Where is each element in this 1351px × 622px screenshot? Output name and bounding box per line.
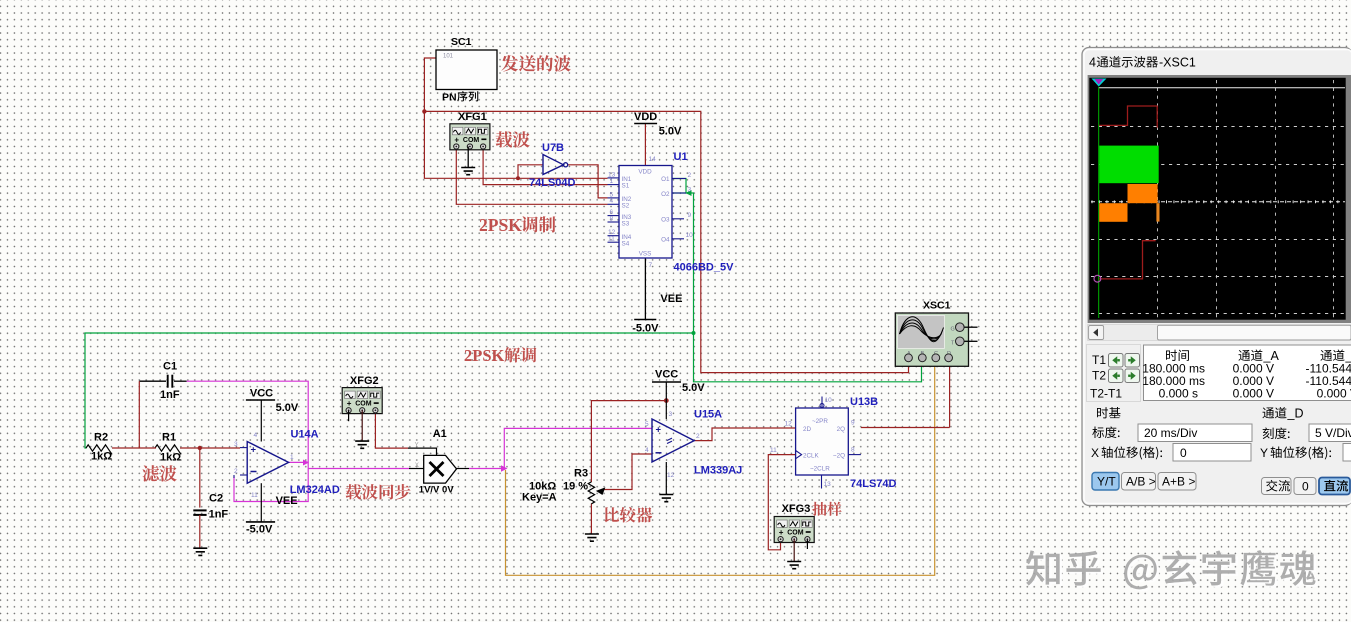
wire: R2 to R1 [112, 447, 156, 449]
svg-text:0.000 V: 0.000 V [1317, 387, 1351, 401]
VDD power symbol [634, 111, 682, 138]
wire: U1 pin7 to VEE [644, 258, 646, 320]
svg-text:A+B >: A+B > [1162, 475, 1195, 489]
multiplier A1 [415, 428, 457, 496]
svg-text:9: 9 [688, 212, 692, 219]
svg-text:S1: S1 [622, 183, 630, 190]
svg-text:74LS04D: 74LS04D [529, 177, 576, 189]
resistor R2 [86, 432, 112, 463]
svg-text:U14A: U14A [291, 429, 319, 441]
analog switch U1 4066BD_5V [608, 151, 735, 274]
svg-text:Y/T: Y/T [1097, 475, 1116, 489]
svg-text:3: 3 [234, 441, 238, 448]
svg-text:1nF: 1nF [209, 509, 229, 521]
svg-text:T2-T1: T2-T1 [1090, 387, 1122, 401]
T1 T2 cursor controls [1087, 345, 1141, 402]
wire: multiplier X input stub [409, 468, 424, 470]
svg-text:SC1: SC1 [451, 36, 472, 48]
svg-text:VEE: VEE [276, 495, 298, 507]
scope x-axis with ticks [1091, 200, 1345, 203]
svg-text:C2: C2 [209, 493, 223, 505]
svg-text:12: 12 [785, 421, 793, 428]
svg-text:0: 0 [1302, 480, 1309, 494]
inverter U7B 74LS04D [529, 142, 576, 189]
svg-text:O3: O3 [661, 217, 670, 224]
svg-text:74LS74D: 74LS74D [850, 478, 897, 490]
annotation: 2PSK demodulation [464, 346, 536, 365]
svg-text:U13B: U13B [850, 396, 878, 408]
measurement table [1142, 345, 1351, 401]
svg-text:T1: T1 [1092, 353, 1106, 367]
svg-text:1: 1 [610, 178, 614, 185]
svg-text:10: 10 [825, 397, 833, 404]
wire: magenta multiplier output to comparator + [469, 428, 652, 471]
svg-text:1V/V 0V: 1V/V 0V [419, 485, 455, 496]
channel A trace (red) [1099, 106, 1157, 128]
wire: minus input feedback stub [233, 475, 235, 478]
wire: branch to oscilloscope channel A [424, 111, 908, 372]
wire: R1 to op-amp + input [180, 446, 240, 450]
svg-text:~2Q: ~2Q [833, 453, 845, 460]
svg-text:COM: COM [787, 530, 804, 537]
svg-text:1nF: 1nF [160, 389, 180, 401]
wire: XFG1 plus to U1 pin4 [456, 147, 607, 205]
svg-text:C1: C1 [163, 361, 177, 373]
svg-text:4: 4 [645, 447, 649, 454]
annotation: transmitted wave [501, 55, 570, 71]
svg-text:1: 1 [290, 454, 294, 461]
svg-text:COM: COM [355, 401, 372, 408]
svg-text:+: + [251, 444, 257, 455]
svg-text:+: + [779, 528, 784, 537]
annotation: carrier [496, 131, 530, 147]
svg-text:XFG1: XFG1 [458, 111, 487, 123]
svg-text:~2PR: ~2PR [812, 418, 828, 425]
svg-text:XFG3: XFG3 [782, 503, 811, 515]
svg-text:4066BD_5V: 4066BD_5V [674, 262, 735, 274]
svg-text:8: 8 [610, 215, 614, 222]
resistor R1 [155, 432, 181, 464]
svg-text:XSC1: XSC1 [923, 300, 951, 312]
VCC symbol U14A [246, 388, 299, 442]
svg-text:0.000 V: 0.000 V [1233, 387, 1274, 401]
svg-text:VSS: VSS [639, 251, 652, 258]
svg-text:Y: Y [1260, 446, 1268, 460]
svg-text:11: 11 [608, 236, 615, 243]
svg-text:11: 11 [251, 492, 258, 499]
svg-text:R1: R1 [162, 432, 176, 444]
svg-text:2: 2 [696, 433, 700, 440]
svg-text:1kΩ: 1kΩ [160, 452, 181, 464]
y position label [1260, 444, 1351, 462]
ground XFG2 COM [355, 410, 369, 448]
svg-text:VEE: VEE [660, 293, 682, 305]
svg-text:LM339AJ: LM339AJ [694, 465, 742, 477]
annotation: sampling [812, 502, 841, 516]
svg-text:Key=A: Key=A [522, 492, 557, 504]
trigger marker [1092, 79, 1107, 87]
XFG2 plus stub [348, 410, 350, 421]
svg-text:O2: O2 [661, 191, 670, 198]
svg-text:S3: S3 [622, 221, 630, 228]
window title [1089, 56, 1196, 70]
svg-text:VDD: VDD [634, 111, 657, 123]
svg-text:U7B: U7B [542, 142, 564, 154]
svg-text:5.0V: 5.0V [276, 402, 299, 414]
svg-text:3: 3 [688, 187, 692, 194]
svg-text:8: 8 [851, 447, 855, 454]
wire: comparator output to U13B 2D [694, 428, 796, 441]
capacitor C1 [139, 361, 186, 402]
svg-text:7: 7 [649, 262, 653, 269]
svg-text:VCC: VCC [655, 369, 678, 381]
svg-text:1kΩ: 1kΩ [91, 451, 112, 463]
ground XFG1 COM [461, 147, 475, 175]
channel C trace (orange blocks) [1099, 184, 1159, 222]
wire: U7B output to U1 pin5 [567, 165, 608, 198]
svg-text:4: 4 [610, 198, 614, 205]
wire: R3 wiper to comparator minus [604, 454, 652, 490]
svg-text:A1: A1 [433, 428, 447, 440]
svg-text:+: + [454, 135, 459, 144]
svg-text:G: G [951, 327, 955, 333]
svg-text:9: 9 [851, 420, 855, 427]
ground XFG3 COM [787, 539, 801, 569]
op-amp U14A LM324AD [234, 429, 340, 500]
annotation: carrier sync [346, 484, 411, 500]
timebase section [1097, 407, 1121, 418]
svg-text:12: 12 [667, 472, 675, 479]
svg-text:T2: T2 [1092, 369, 1106, 383]
svg-text:2: 2 [688, 172, 692, 179]
svg-text:2PSK: 2PSK [464, 346, 505, 365]
svg-text:0: 0 [1180, 446, 1187, 460]
svg-text:VDD: VDD [638, 169, 652, 176]
function generator XFG1 [450, 111, 490, 150]
svg-text:2Q: 2Q [837, 426, 846, 433]
capacitor C2 [193, 448, 228, 548]
potentiometer R3 [522, 468, 605, 504]
wire: XFG3 plus to U13B 2CLK [768, 455, 795, 550]
svg-text:S4: S4 [622, 241, 630, 248]
svg-text:5.0V: 5.0V [682, 382, 705, 394]
svg-text:19 %: 19 % [563, 481, 588, 493]
svg-text:XFG2: XFG2 [350, 375, 379, 387]
svg-text:2PSK: 2PSK [479, 215, 522, 235]
function generator XFG2 [342, 375, 382, 414]
wire: multiplier output stub [457, 468, 470, 470]
svg-text:20 ms/Div: 20 ms/Div [1144, 426, 1197, 440]
svg-text:R3: R3 [574, 468, 588, 480]
svg-text:COM: COM [463, 137, 480, 144]
svg-text:13: 13 [824, 481, 832, 488]
svg-text:O4: O4 [661, 237, 670, 244]
wire: XFG1 minus to U1 pin1 [483, 147, 607, 185]
annotation: comparator [605, 507, 653, 523]
svg-text:+: + [347, 399, 352, 408]
XFG3 minus stub [806, 539, 808, 549]
svg-text:5 V/Div: 5 V/Div [1315, 426, 1351, 440]
svg-text:R2: R2 [94, 432, 108, 444]
svg-text:_D: _D [1287, 407, 1304, 421]
svg-text:-XSC1: -XSC1 [1159, 56, 1196, 70]
svg-text:10: 10 [686, 232, 694, 239]
svg-text:O1: O1 [661, 176, 670, 183]
wire: VDD to U1 pin14 [644, 124, 646, 166]
ground U15A pin12 [659, 462, 673, 502]
channel D section [1262, 407, 1303, 421]
comparator U15A LM339AJ [645, 409, 742, 480]
wire: R3 top to VCC node [591, 398, 668, 482]
svg-text:U1: U1 [674, 151, 688, 163]
wire: C1 left leg down to filter line [138, 381, 140, 448]
annotation: filter [142, 465, 176, 481]
svg-text:2CLK: 2CLK [803, 453, 820, 460]
svg-text:VCC: VCC [250, 388, 273, 400]
svg-text:S2: S2 [622, 203, 630, 210]
svg-text:U15A: U15A [694, 409, 722, 421]
wire: R3 bottom to ground [585, 504, 599, 542]
channel D trace (red) [1094, 241, 1156, 282]
D flip-flop U13B 74LS74D [770, 396, 897, 490]
AC 0 DC buttons [1262, 478, 1351, 495]
svg-text:-5.0V: -5.0V [246, 524, 273, 536]
scope y-axis green line [1098, 87, 1100, 318]
scope display background [1088, 75, 1351, 323]
scale field channel D [1263, 424, 1351, 442]
svg-text:4: 4 [1089, 56, 1096, 70]
watermark zhihu [1026, 550, 1318, 591]
wire: orange demod signal loop to scope C [506, 360, 935, 575]
scope gridlines [1091, 80, 1345, 318]
svg-text:5.0V: 5.0V [659, 126, 682, 138]
wire: multiplier Y input stub [408, 448, 437, 455]
wire: XFG2 minus to multiplier Y [375, 414, 408, 449]
Y/T A/B A+B buttons [1092, 473, 1196, 491]
timebase scale field [1092, 424, 1252, 442]
svg-text:0.000 s: 0.000 s [1159, 387, 1198, 401]
svg-text:2: 2 [234, 468, 238, 475]
svg-text:X: X [1091, 446, 1099, 460]
function generator XFG3 [774, 503, 814, 543]
svg-text:101: 101 [443, 54, 454, 60]
wire: magenta C1/feedback net [187, 381, 409, 501]
svg-text:~2CLR: ~2CLR [810, 466, 830, 473]
VCC symbol U15A [652, 369, 705, 420]
ground C2 [193, 548, 207, 555]
svg-text:2D: 2D [803, 426, 812, 433]
svg-text:14: 14 [649, 156, 657, 163]
oscilloscope window XSC1 panel [1082, 48, 1351, 506]
svg-text:+: + [656, 425, 662, 436]
svg-text:5: 5 [645, 421, 649, 428]
svg-text:A/B >: A/B > [1126, 475, 1156, 489]
wire: green net U1 pin3 to scope B and filter input [85, 179, 922, 449]
label PN sequence [442, 91, 478, 103]
VEE symbol U14A [246, 483, 298, 535]
oscilloscope XSC1 icon [895, 300, 977, 367]
wire: U13B 2Q to scope D [861, 360, 950, 428]
PN sequence source SC1 [436, 36, 497, 90]
svg-text:4: 4 [254, 432, 258, 439]
wire: U7B input tap [516, 165, 543, 181]
svg-text:11: 11 [770, 447, 777, 454]
x position field [1091, 444, 1251, 462]
svg-text:3: 3 [669, 411, 673, 418]
wire: SC1 output net (red) to U1 pin13 / U7B input [422, 58, 607, 178]
channel B trace (green block) [1099, 146, 1159, 184]
svg-text:PN: PN [442, 92, 457, 104]
scope scrollbar [1088, 325, 1351, 341]
svg-text:-5.0V: -5.0V [632, 323, 659, 335]
VEE power symbol (U1) [632, 293, 682, 335]
annotation: 2PSK modulation [479, 215, 555, 235]
